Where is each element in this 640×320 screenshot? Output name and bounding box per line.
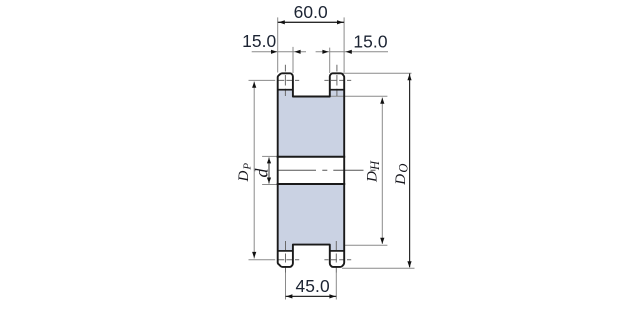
bottom root line right tooth bbox=[330, 250, 344, 252]
sprocket body upper flange fill bbox=[278, 90, 345, 157]
dimension line 45.0 bbox=[286, 295, 337, 297]
d arrow top bbox=[267, 158, 271, 164]
dimension line 15.0 right bbox=[316, 51, 388, 53]
bore top line bbox=[277, 156, 346, 158]
DH arrow bottom bbox=[380, 238, 384, 244]
d extension line top bbox=[262, 155, 278, 157]
DH extension line top bbox=[330, 95, 388, 97]
45.0 extension line right (tooth center extended) bbox=[335, 273, 337, 300]
bottom left tooth centerline bbox=[285, 241, 287, 273]
d extension line bottom bbox=[262, 184, 278, 186]
label d bbox=[252, 168, 272, 178]
DH arrow top bbox=[380, 98, 384, 104]
arrow 45.0 left bbox=[286, 294, 292, 298]
top root line left tooth bbox=[278, 89, 293, 91]
DP dimension line bbox=[253, 82, 255, 259]
svg-text:DO: DO bbox=[393, 164, 411, 186]
DO extension line top bbox=[341, 72, 412, 74]
arrow 15.0 right inner (points right at x=329.7) bbox=[322, 50, 328, 54]
arrow 60.0 left bbox=[279, 20, 285, 24]
label DH bbox=[365, 160, 383, 183]
d arrow bottom bbox=[267, 178, 271, 184]
extension line 15.0 left dim, tooth right edge (x=293) bbox=[292, 47, 294, 73]
d dimension line bbox=[268, 158, 270, 184]
svg-text:DH: DH bbox=[365, 160, 383, 183]
label DO bbox=[393, 164, 411, 186]
dimension line 60.0 bbox=[278, 21, 344, 23]
dimension line 15.0 left bbox=[252, 51, 306, 53]
top right tooth centerline bbox=[336, 65, 338, 96]
bore bottom line bbox=[277, 183, 346, 185]
DH dimension line bbox=[381, 98, 383, 245]
sprocket body lower flange fill bbox=[278, 184, 345, 251]
arrow 45.0 right bbox=[329, 294, 335, 298]
DH extension line bottom bbox=[344, 244, 387, 246]
top pitch centerline dashes through teeth bbox=[278, 79, 351, 81]
DO extension line bottom bbox=[342, 267, 415, 269]
label DP bbox=[236, 163, 254, 183]
DO dimension line bbox=[409, 74, 411, 268]
45.0 extension line left (tooth center extended) bbox=[285, 273, 287, 300]
top root line right tooth bbox=[330, 89, 344, 91]
extension line 60.0 right (x=344.1) bbox=[343, 17, 345, 72]
svg-text:60.0: 60.0 bbox=[294, 2, 328, 22]
DO arrow top bbox=[407, 74, 411, 80]
bottom pitch extension line for DP (solid) bbox=[249, 259, 276, 261]
extension line 15.0 right dim, tooth left edge (x=329.7) bbox=[329, 48, 331, 73]
arrow 15.0 left inner (points left at x=293) bbox=[294, 50, 300, 54]
sprocket outer outline bbox=[278, 73, 345, 267]
arrow 15.0 left outer (points right at x=277.6) bbox=[271, 50, 277, 54]
svg-text:15.0: 15.0 bbox=[242, 31, 276, 51]
bottom right tooth centerline bbox=[335, 241, 337, 273]
top pitch extension line for DP (solid) bbox=[249, 79, 276, 81]
arrow 15.0 right outer (points left at x=344.5) bbox=[346, 50, 352, 54]
bore centerline (axis) bbox=[277, 169, 375, 171]
extension line 60.0 left (x=277.7) bbox=[277, 17, 279, 72]
DO arrow bottom bbox=[407, 261, 411, 267]
bottom root line left tooth bbox=[278, 250, 293, 252]
svg-text:d: d bbox=[252, 168, 272, 178]
top left tooth centerline bbox=[284, 65, 286, 96]
svg-text:15.0: 15.0 bbox=[353, 32, 387, 52]
bottom pitch centerline dashes through teeth bbox=[278, 259, 351, 261]
DP arrow bottom bbox=[252, 252, 256, 258]
svg-text:45.0: 45.0 bbox=[295, 276, 329, 296]
arrow 60.0 right bbox=[337, 20, 343, 24]
DP arrow top bbox=[252, 82, 256, 88]
